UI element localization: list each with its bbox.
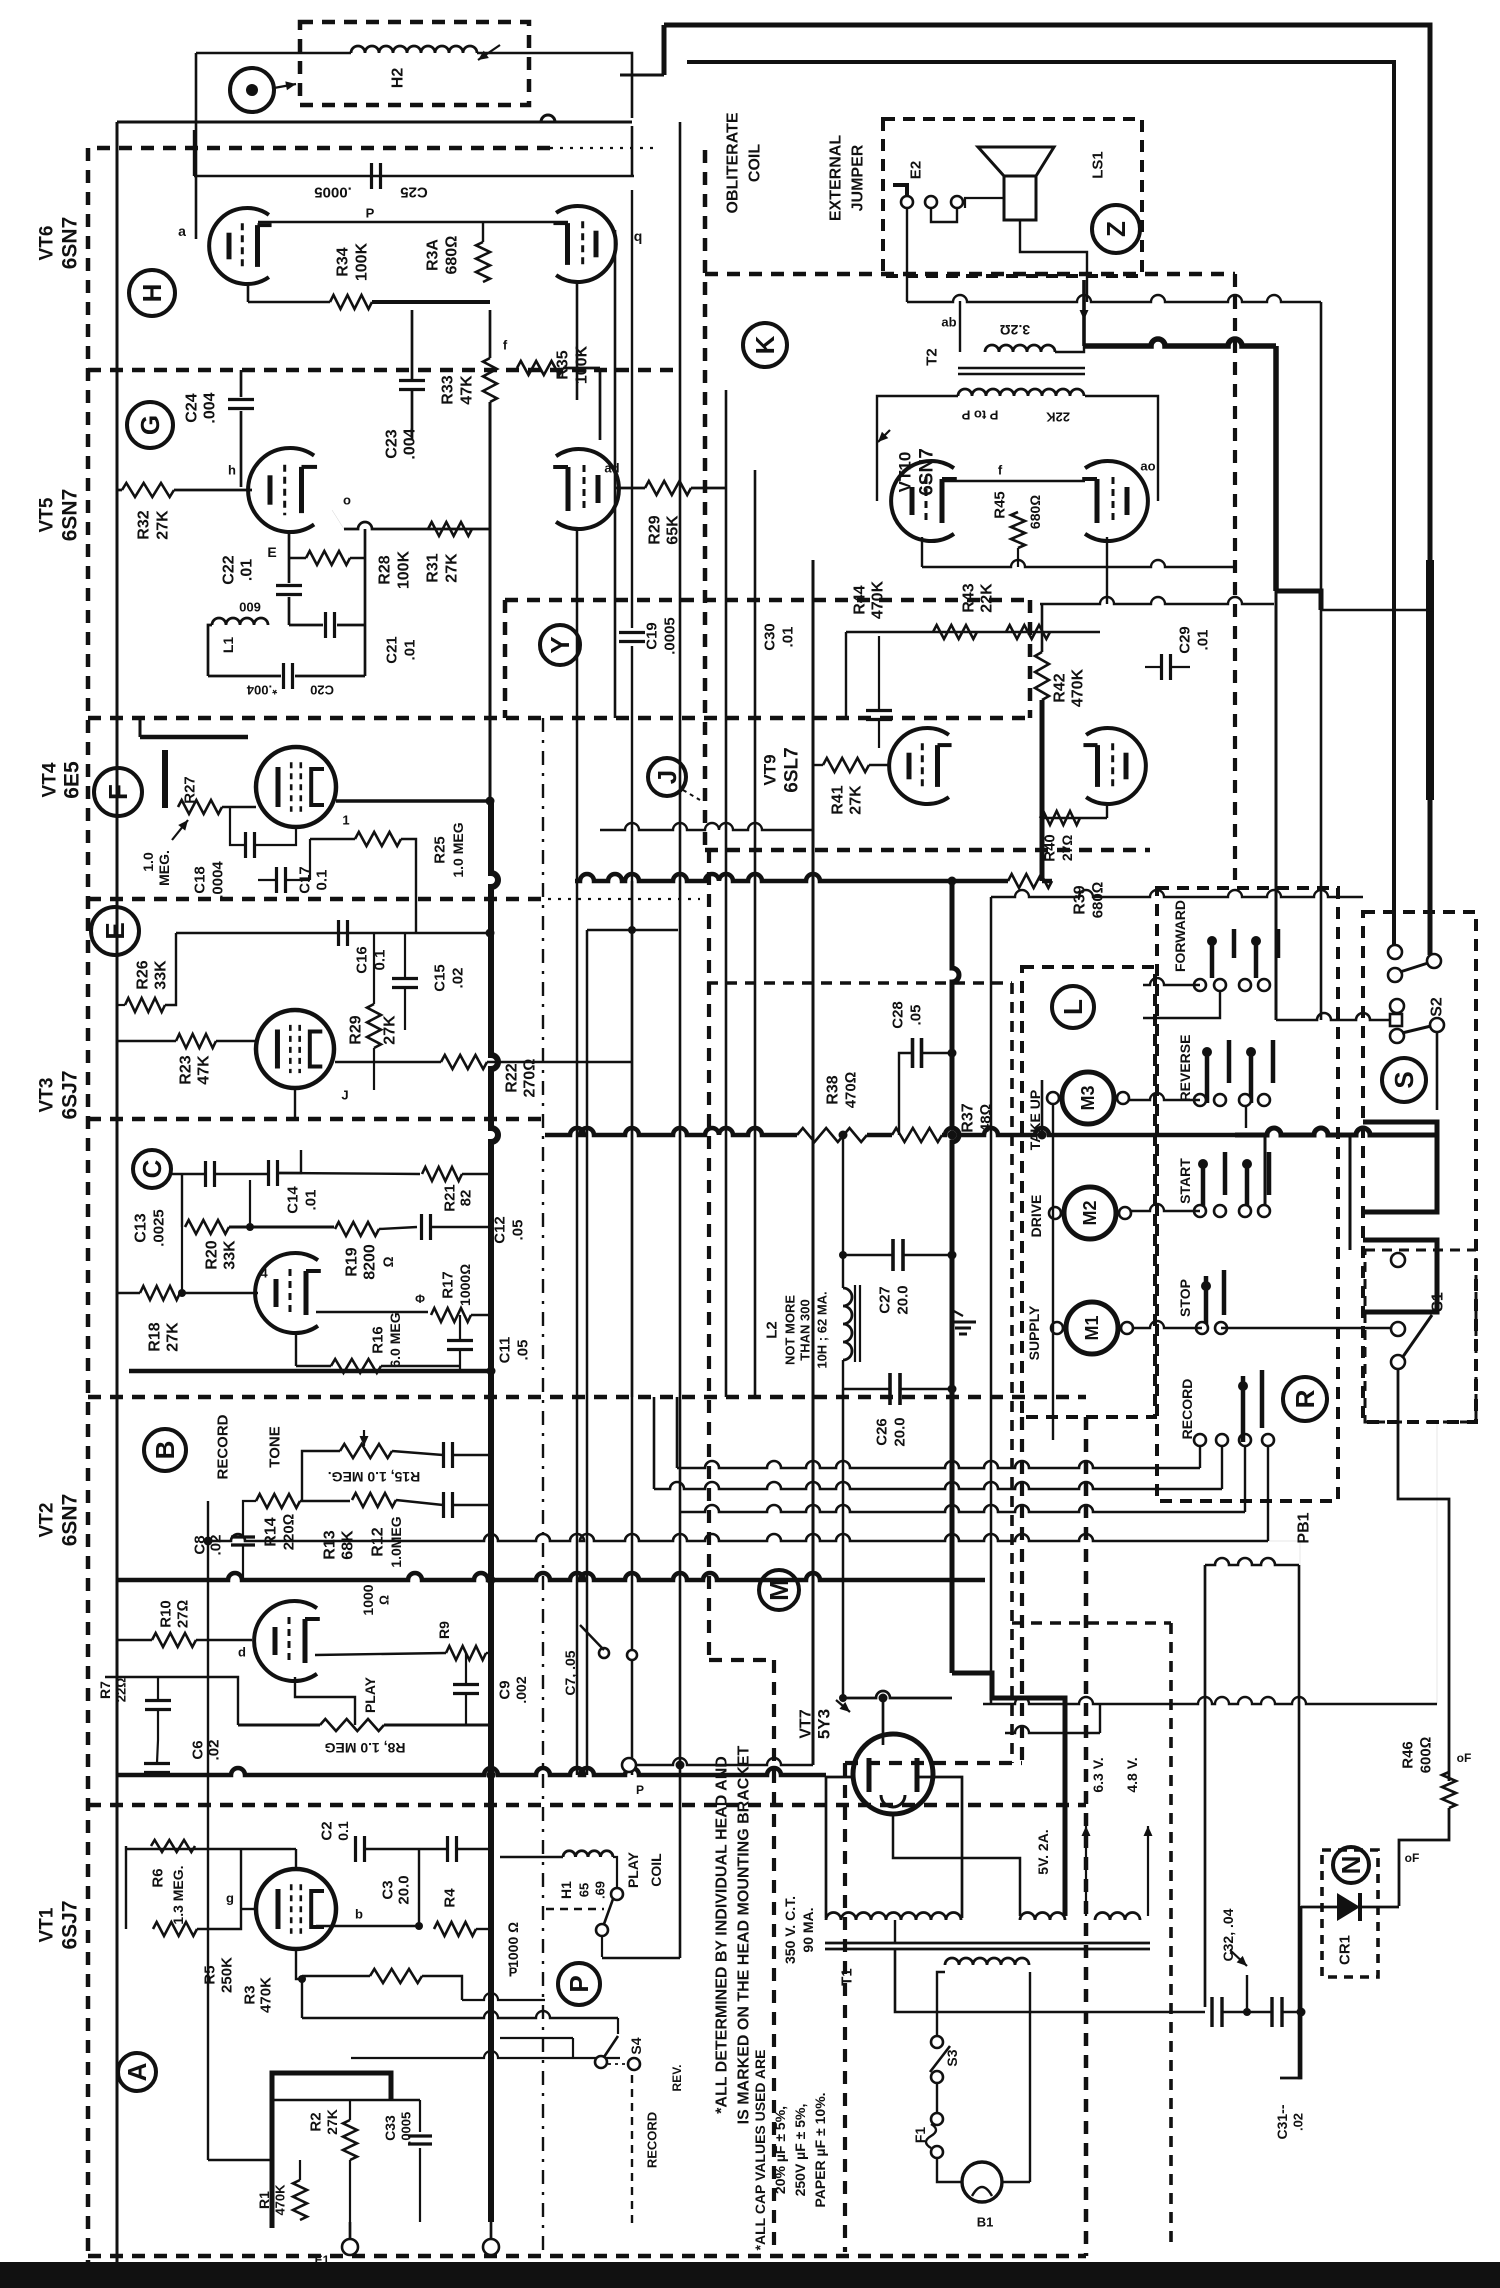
wire x1301 [1280,1906,1301,2078]
thick wire x1042 lower [1040,700,1045,881]
svg-text:8200: 8200 [362,1244,379,1280]
svg-text:.01: .01 [402,640,419,661]
wire y2100 [272,2099,420,2101]
svg-text:*ALL CAP VALUES USED ARE: *ALL CAP VALUES USED ARE [752,2050,768,2251]
left outer dashed border [86,148,91,2262]
svg-text:.01: .01 [303,1190,320,1211]
wire C13-C14 [215,1173,268,1175]
tube VT3 6SJ7 [256,1010,334,1088]
resistor R29 [367,1004,381,1048]
svg-text:R32: R32 [136,510,153,539]
tube VT10b [1085,461,1148,541]
svg-text:C26: C26 [874,1418,891,1446]
wire R19-C12 [379,1227,417,1229]
choke L2 [843,1288,852,1360]
wire C24 bottom [240,411,243,487]
svg-text:470Ω: 470Ω [843,1072,860,1109]
svg-text:C29: C29 [1177,626,1194,654]
wire C26 left [843,1388,890,1390]
svg-text:R33: R33 [440,375,457,404]
osc bottom wire right [295,675,365,678]
svg-text:R6: R6 [150,1868,167,1887]
svg-text:.0005: .0005 [399,2112,414,2145]
primary left lead [937,1972,945,2035]
T2 primary left lead [877,396,958,501]
capacitor C15 [392,977,418,980]
tube VT7 5Y3 [853,1734,933,1814]
svg-text:H1: H1 [558,1881,574,1899]
wire C15 bottom [404,989,406,1030]
rectifier N [1333,1847,1369,1883]
wire C17 right [286,879,310,881]
svg-text:S: S [1389,1071,1419,1088]
svg-text:R28: R28 [377,555,394,584]
svg-text:C28: C28 [890,1001,907,1029]
T1 5V winding [1020,1913,1065,1921]
wire coil left [196,52,351,55]
svg-text:MEG.: MEG. [156,850,172,886]
svg-text:RECORD: RECORD [645,2112,660,2168]
svg-text:0.1: 0.1 [335,1821,351,1841]
S2 contact 5 [1390,1029,1404,1043]
wire C15 top [404,933,406,978]
resistor R3 [370,1969,422,1983]
T2 primary right lead [1085,396,1158,501]
svg-text:680Ω: 680Ω [1090,882,1107,919]
svg-text:C13: C13 [133,1213,150,1242]
wire C26 right [900,1388,952,1390]
wire R21 to bus [462,1173,491,1175]
svg-text:PLAY: PLAY [625,1851,641,1888]
svg-text:100K: 100K [574,345,591,384]
svg-text:.05: .05 [510,1220,527,1241]
VT2b cathode drop [295,1331,297,1366]
section J [648,758,686,796]
svg-text:27K: 27K [324,2109,340,2135]
svg-text:LS1: LS1 [1090,151,1107,179]
wire R23 to grid [216,1040,256,1042]
R5 right leg [197,1849,241,1929]
contact bank STOP a [1204,1276,1209,1330]
junction [487,1771,496,1780]
resistor R32 [122,483,174,497]
svg-text:680Ω: 680Ω [444,236,461,275]
wire x632 below C19 [631,646,633,1397]
T2 secondary left lead [959,301,961,352]
svg-text:R43: R43 [961,583,978,612]
dashed x1171 [1169,1623,1173,2250]
jumper terminal 1 [901,196,913,208]
wire R18 to grid [180,1292,258,1294]
thick bus y1135 mid [942,1128,1235,1135]
section S [1382,1058,1426,1102]
svg-text:.004: .004 [402,428,419,459]
junction [948,1251,957,1260]
M left dashed x709 [707,850,711,1660]
wire R8 left [238,1724,320,1727]
svg-text:C7, .05: C7, .05 [562,1650,578,1695]
dashed box S1 [1365,1250,1476,1422]
wire C21 right [337,624,365,627]
svg-text:R44: R44 [852,585,869,614]
svg-text:PB1: PB1 [1296,1512,1313,1543]
svg-text:C6: C6 [190,1740,207,1759]
resistor R26 [125,998,165,1012]
svg-text:250V µF ± 5%,: 250V µF ± 5%, [792,2104,808,2197]
svg-text:6SL7: 6SL7 [782,747,803,792]
thick wire x1276 down [1273,346,1279,591]
wire y176 C25 [194,175,634,177]
capacitor C12 [420,1214,423,1240]
svg-text:R35: R35 [555,350,572,379]
CT wire to C32 [895,1949,1205,2012]
motor M1 [1066,1302,1118,1354]
bus y1512 [680,1505,1245,1512]
svg-text:C25: C25 [400,184,428,201]
wire y1677 [105,1677,238,1725]
arrow 4.8V [1147,1826,1149,1916]
wire y567 [922,560,1235,567]
svg-text:.02: .02 [450,968,467,989]
resistor R20 [185,1220,229,1234]
svg-text:ad: ad [604,461,619,476]
osc right leg [364,529,367,676]
svg-text:C21: C21 [384,636,401,664]
resistor R37 zigzag [892,1128,942,1142]
svg-text:*ALL DETERMINED BY INDIVIDUAL: *ALL DETERMINED BY INDIVIDUAL HEAD AND [714,1756,731,2114]
chassis stub [1246,1975,1248,2012]
wire y830 [600,823,813,830]
wire x1042 lower [1041,1080,1044,1135]
svg-text:S4: S4 [628,2037,644,2054]
svg-text:0.1: 0.1 [314,870,331,891]
wire y302 [907,295,1321,302]
svg-text:q: q [634,228,643,244]
svg-text:100K: 100K [354,242,371,281]
svg-text:R3: R3 [242,1985,259,2004]
C28 wire left down [899,1053,912,1135]
svg-text:350 V. C.T.: 350 V. C.T. [782,1896,798,1964]
wire M3 to REVERSE row [1125,1093,1200,1100]
speaker wire left [965,198,1004,208]
svg-text:27K: 27K [382,1015,399,1045]
tube VT10a [891,461,954,541]
svg-text:VT7: VT7 [798,1709,815,1738]
contact bank START [1201,1164,1206,1215]
wire to C8 [243,1501,256,1536]
wire y1765 [636,1758,813,1765]
resistor R17 [431,1308,471,1322]
junction [839,1131,848,1140]
resistor R29b 65K [645,481,691,495]
svg-text:C14: C14 [285,1186,302,1214]
T2 primary [958,389,1084,396]
svg-text:R3A: R3A [425,239,442,271]
long wire x991 [990,897,993,1704]
svg-text:.02: .02 [206,1740,223,1761]
capacitor C29 [1160,654,1163,680]
section C [133,1150,171,1188]
VT7 plate 1 [867,1758,872,1792]
long wire x680 [679,122,682,1958]
resistor R34 [330,295,372,309]
svg-text:1000 Ω: 1000 Ω [505,1922,521,1968]
wire R46 to CR1 [1399,1808,1449,1906]
wire R10 to VT2a grid [196,1639,252,1641]
svg-text:R26: R26 [135,960,152,989]
svg-text:47K: 47K [459,375,476,405]
svg-text:10H ; 62 MA.: 10H ; 62 MA. [815,1291,830,1368]
svg-text:RECORD: RECORD [1179,1379,1195,1440]
wire C12 to bus [431,1226,491,1228]
svg-text:33K: 33K [222,1240,239,1270]
thick wire x1084 from top [1082,280,1086,346]
wire x1321 down [1320,302,1323,1020]
svg-text:Ω: Ω [377,1595,392,1605]
resistor R43 zigzag [1006,625,1050,639]
svg-text:START: START [1177,1158,1193,1204]
svg-text:P: P [636,1783,644,1797]
dashed segment play coil box [546,1908,604,1911]
bus1 left drop [676,1397,679,1468]
svg-text:R16: R16 [370,1326,387,1354]
svg-text:h: h [228,463,236,478]
switch S4 arm [604,2036,618,2057]
wire R29 bottom [373,1048,375,1090]
svg-text:PLAY: PLAY [362,1676,378,1713]
svg-text:RECORD: RECORD [215,1414,232,1479]
motor common wire [1052,1104,1054,1322]
wire S2 down [1436,1031,1439,1110]
svg-text:6.3 V.: 6.3 V. [1090,1757,1106,1792]
svg-text:R2: R2 [308,2112,325,2131]
terminal Q jack [230,68,274,112]
riser x1350 [1349,1135,1352,1250]
svg-text:C27: C27 [877,1286,894,1314]
long wire x755 [754,470,757,1397]
svg-text:R22: R22 [504,1063,521,1092]
link wire y930 [587,929,678,931]
svg-text:100K: 100K [396,550,413,589]
svg-text:470K: 470K [870,580,887,619]
wire R29b to x726 [691,487,726,490]
capacitor C28 [911,1038,915,1068]
svg-text:470K: 470K [258,1977,275,2013]
svg-text:S1: S1 [1430,1292,1447,1312]
thick shield wire A section [272,2073,391,2228]
svg-text:.05: .05 [515,1340,532,1361]
wire C23 top [411,310,414,380]
wire to R25 [310,838,355,840]
VT7 plate wire to T1 [826,1777,853,1918]
dashed divider x632 lower [631,2075,633,2225]
riser x1265 [1264,1135,1267,1212]
svg-text:A: A [122,2062,152,2081]
K bottom dashed y850 [705,848,1150,853]
svg-text:d: d [238,1645,246,1660]
svg-text:6SN7: 6SN7 [917,448,938,496]
contact S4 b [628,2058,640,2070]
svg-text:4.8 V.: 4.8 V. [1124,1757,1140,1792]
E top wire y933 [235,932,490,934]
svg-text:S2: S2 [1429,997,1446,1017]
bottom border bar [0,2262,1500,2288]
long wire x726 [725,390,728,1397]
svg-text:R4: R4 [442,1888,459,1908]
resistor R10 [152,1633,196,1647]
contact bank FORWARD [1210,941,1215,978]
VT7 plate wire 2 to T1 [915,1777,962,1918]
dashed box relay PB1 [1157,888,1338,1501]
wire x1276 lower [1275,591,1278,1020]
wire R35 right [563,367,600,370]
svg-text:1000: 1000 [360,1584,376,1615]
svg-text:C22: C22 [221,555,238,584]
svg-text:47K: 47K [196,1055,213,1085]
speaker LS1 [978,147,1054,176]
H box top wire y122 [117,121,632,124]
wire x843 down to VT7 node [842,1389,845,1698]
jumper link [931,208,957,222]
svg-text:680Ω: 680Ω [1027,495,1043,529]
section K [743,323,787,367]
svg-text:COIL: COIL [747,144,764,182]
svg-text:27K: 27K [848,785,865,815]
S1 arm [1402,1315,1432,1358]
capacitor C21 [324,612,327,638]
wire C30 top [878,636,880,710]
section M [759,1570,799,1610]
capacitor C19 [619,631,645,634]
contact row FORWARD [1194,979,1206,991]
tube VT2b [255,1253,318,1333]
wire R22 to x632 [487,1061,632,1063]
T1 6.3V winding [1095,1913,1140,1921]
capacitor C9 [453,1683,479,1686]
wire C22 to coil node [288,597,291,625]
wire C11 bottom [459,1351,461,1371]
wire C18 to cathode [255,827,296,845]
wire to R42 [1041,604,1044,652]
S2 contact 1 [1388,945,1402,959]
wire to C21 [289,624,323,627]
svg-text:220Ω: 220Ω [281,1514,298,1551]
VT10 grid link [943,480,1085,482]
thick B+ wire x952 [952,881,959,1673]
contact [596,1924,608,1936]
svg-text:1.0 MEG: 1.0 MEG [450,822,466,877]
wire R25 down [401,839,416,933]
K/Z dashed boundary y274 [705,272,1235,277]
resistor R25 [355,832,401,846]
svg-text:600Ω: 600Ω [1418,1737,1435,1774]
resistor R28 [306,551,350,565]
T2 core line 1 [958,367,1085,370]
chassis arrow [1230,1950,1247,1966]
svg-text:22K: 22K [979,583,996,613]
capacitor C25 [370,163,373,189]
VT7 plate 2 [915,1758,920,1792]
jumper terminal 3 [951,196,963,208]
svg-text:.01: .01 [780,627,797,648]
terminal bottom bus [483,2239,499,2255]
resistor R8 [320,1719,384,1731]
thick bus y346 [1084,339,1276,346]
bus y1541 [208,1534,1268,1541]
contact bank RECORD a [1241,1376,1246,1442]
svg-text:C2: C2 [319,1821,336,1840]
svg-text:E: E [267,544,276,560]
capacitor C27 [891,1239,895,1271]
F/E dotted continuation [548,898,700,900]
wire R8 right [384,1724,491,1727]
primary right lead [1029,1972,1031,2182]
thick section of right wire [1426,560,1434,800]
bus2 right riser [1221,1445,1223,1489]
wire diode to R46 drop [1360,1906,1399,1909]
svg-text:Φ: Φ [415,1292,425,1306]
resistor R42 [1035,652,1049,700]
speaker wire down [1020,220,1087,302]
capacitor C5 [144,1762,170,1765]
svg-text:R41: R41 [830,785,847,814]
wire R16 right [381,1365,460,1367]
svg-text:OBLITERATE: OBLITERATE [725,112,742,213]
svg-text:TAKE UP: TAKE UP [1027,1090,1043,1150]
wire R32 to grid [174,489,252,492]
section G [127,402,173,448]
svg-text:6SN7: 6SN7 [59,217,82,270]
contact S4 a [595,2056,607,2068]
capacitor C2 [354,1836,357,1862]
svg-text:Z: Z [1101,221,1131,237]
resistor R16 [331,1359,381,1373]
bus y1468 [677,1461,1200,1468]
section Z [1092,205,1140,253]
svg-text:22K: 22K [1045,410,1069,425]
capacitor C13 [204,1161,207,1187]
wire x632 to C19 [631,190,633,628]
inner dashed box top y983 [707,981,1012,985]
svg-text:6SN7: 6SN7 [59,489,82,542]
resistor R18 [140,1286,180,1300]
wire to VT1 grid [241,1908,256,1910]
C28 wire right [922,1052,952,1054]
resistor R21 [422,1167,462,1181]
capacitor C32 [1210,1997,1213,2027]
svg-text:R20: R20 [204,1240,221,1269]
R27 slider bar [162,750,168,808]
svg-text:Y: Y [545,636,575,653]
capacitor C14 [267,1160,270,1186]
capacitor C20 [282,663,285,689]
wire x615 from VT6b [614,230,617,718]
svg-text:VT6: VT6 [37,226,58,261]
motor M3 [1062,1072,1114,1124]
svg-text:VT2: VT2 [37,1503,58,1538]
resistor R3A [476,242,490,282]
REVERSE contact drop [1245,1106,1247,1128]
svg-text:R38: R38 [825,1075,842,1104]
svg-text:P: P [509,1965,518,1980]
svg-text:.0025: .0025 [151,1209,168,1247]
wire top to tube [295,1849,297,1869]
coil H1 [563,1851,613,1857]
long wire x587 [586,930,589,1775]
svg-text:C31--: C31-- [1274,2104,1290,2139]
svg-text:L: L [1058,999,1088,1015]
C/B dashed boundary y1397 [88,1395,1086,1400]
